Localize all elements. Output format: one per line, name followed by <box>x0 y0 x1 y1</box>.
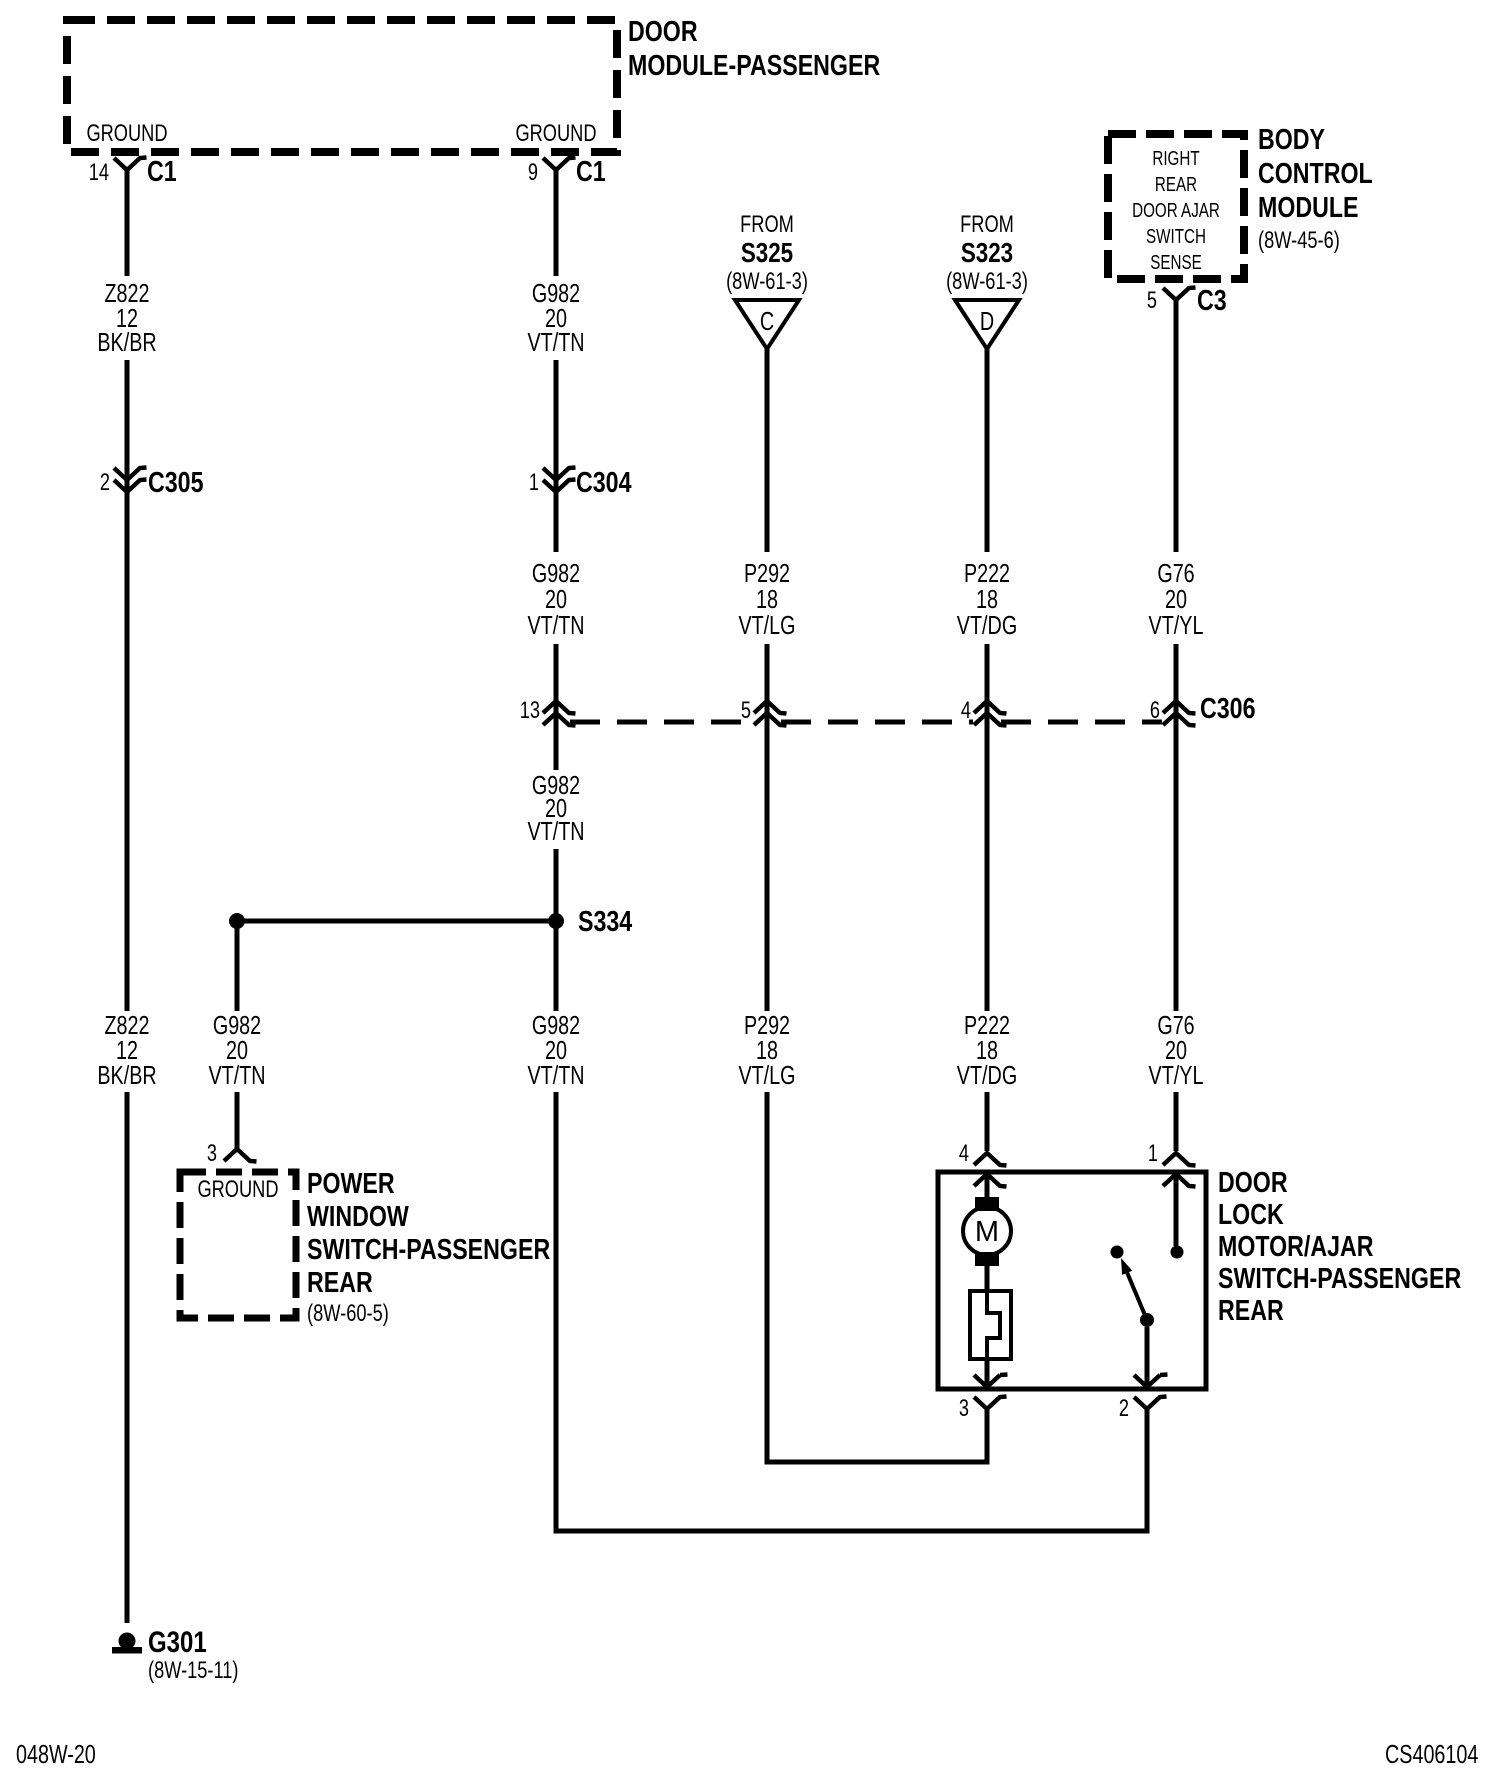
svg-text:14: 14 <box>89 159 109 186</box>
power window switch box <box>180 1172 296 1318</box>
svg-text:CS406104: CS406104 <box>1385 1739 1478 1769</box>
svg-text:VT/DG: VT/DG <box>957 1060 1017 1090</box>
wire Z822 long segment <box>125 494 130 1011</box>
wire label P292 18 VT/LG row B <box>738 558 795 640</box>
svg-text:6: 6 <box>1150 697 1160 724</box>
wire label G982 20 VT/TN row C <box>527 770 584 846</box>
wire P222 to door lock pin 4 <box>985 1092 990 1151</box>
switch pivot dot <box>1140 1313 1154 1327</box>
connector C1 pin 14 symbol <box>114 158 147 171</box>
wire G982 segment c <box>554 494 559 552</box>
connector chevron door lock pin 4 outside <box>974 1153 1007 1166</box>
wire P292 segment <box>765 644 770 725</box>
connector chevron door lock pin 3 inside <box>974 1375 1008 1388</box>
switch contact dot right <box>1171 1246 1184 1259</box>
svg-text:MODULE-PASSENGER: MODULE-PASSENGER <box>628 50 880 82</box>
connector C306 pin 4 symbol <box>974 701 1007 726</box>
connector chevron door lock pin 1 outside <box>1163 1153 1196 1166</box>
svg-text:(8W-45-6): (8W-45-6) <box>1258 227 1340 254</box>
svg-text:VT/DG: VT/DG <box>957 610 1017 640</box>
wire label P222 18 VT/DG row D <box>957 1010 1017 1090</box>
wire pin 4 to motor <box>985 1174 990 1199</box>
off-page connector C triangle <box>735 300 799 349</box>
svg-text:VT/TN: VT/TN <box>527 816 584 846</box>
svg-text:2: 2 <box>1119 1395 1129 1422</box>
connector fork door lock pin 2 <box>1134 1397 1167 1410</box>
ground G301 symbol <box>112 1633 142 1654</box>
door ajar switch contact <box>987 1291 1000 1359</box>
svg-text:REAR: REAR <box>1218 1295 1284 1327</box>
wire P222 from connector D <box>985 349 990 552</box>
svg-text:DOOR AJAR: DOOR AJAR <box>1132 200 1220 222</box>
wire label P222 18 VT/DG row B <box>957 558 1017 640</box>
wire ajar switch to pin 3 <box>985 1359 990 1387</box>
connector C3 pin 5 symbol <box>1163 288 1196 301</box>
connector fork power window pin 3 <box>224 1149 257 1162</box>
connector C305 symbol <box>114 468 147 493</box>
wire label G76 20 VT/YL row B <box>1149 558 1204 640</box>
svg-text:BK/BR: BK/BR <box>97 1060 156 1090</box>
wire P222 segment b <box>985 725 990 1011</box>
svg-text:VT/LG: VT/LG <box>738 610 795 640</box>
svg-text:C304: C304 <box>576 467 632 499</box>
svg-text:C305: C305 <box>148 467 204 499</box>
body control module title <box>1258 124 1373 224</box>
svg-text:FROM: FROM <box>740 211 794 238</box>
svg-text:DOOR: DOOR <box>1218 1167 1288 1199</box>
svg-text:G301: G301 <box>148 1626 207 1659</box>
wire G982 branch to power window switch <box>235 1092 240 1149</box>
wire G76 from C3 <box>1174 300 1179 552</box>
body control module box <box>1108 134 1244 279</box>
svg-text:C1: C1 <box>147 156 177 188</box>
wire G982 to door lock pin 2 <box>556 1092 1147 1531</box>
wire G982 branch from S334 <box>235 921 240 1011</box>
svg-text:5: 5 <box>741 697 751 724</box>
connector C304 symbol <box>543 468 576 493</box>
connector chevron door lock pin 4 inside <box>974 1174 1007 1187</box>
connector C1 pin 9 symbol <box>543 158 576 171</box>
svg-text:1: 1 <box>529 469 539 496</box>
wire G76 segment <box>1174 644 1179 725</box>
splice S334 horizontal wire <box>237 919 556 924</box>
wire switch pivot to pin 2 <box>1145 1327 1150 1387</box>
right rear door ajar switch sense label <box>1132 148 1220 274</box>
wire pin 1 to switch contact <box>1174 1174 1179 1246</box>
svg-text:MOTOR/AJAR: MOTOR/AJAR <box>1218 1231 1374 1263</box>
switch contact dot left <box>1111 1246 1124 1259</box>
wire label P292 18 VT/LG row D <box>738 1010 795 1090</box>
wire G982 segment e <box>554 725 559 770</box>
svg-text:SENSE: SENSE <box>1150 252 1202 274</box>
svg-text:S334: S334 <box>578 906 632 938</box>
connector chevron door lock pin 2 inside <box>1134 1375 1168 1388</box>
svg-text:C306: C306 <box>1200 693 1256 725</box>
wire G76 segment b <box>1174 725 1179 1011</box>
svg-text:VT/LG: VT/LG <box>738 1060 795 1090</box>
wire P292 segment b <box>765 725 770 1011</box>
svg-text:13: 13 <box>520 697 540 724</box>
svg-text:D: D <box>980 306 994 336</box>
svg-text:(8W-61-3): (8W-61-3) <box>946 268 1028 295</box>
connector C306 pin 13 symbol <box>543 701 576 726</box>
svg-text:DOOR: DOOR <box>628 16 698 48</box>
svg-text:2: 2 <box>100 469 110 496</box>
svg-text:BK/BR: BK/BR <box>97 327 156 357</box>
connector C306 pin 6 symbol <box>1163 701 1196 726</box>
wire G982 segment b <box>554 360 559 494</box>
wire label Z822 12 BK/BR upper <box>97 278 156 357</box>
svg-text:(8W-61-3): (8W-61-3) <box>726 268 808 295</box>
motor brush bottom <box>975 1252 999 1266</box>
door module-passenger title <box>628 16 880 82</box>
svg-text:GROUND: GROUND <box>515 120 596 147</box>
wire P292 to door lock pin 3 <box>767 1092 987 1462</box>
svg-text:CONTROL: CONTROL <box>1258 158 1373 190</box>
svg-text:S325: S325 <box>741 237 793 268</box>
dashed connector line C306 segment 2 <box>781 720 973 725</box>
off-page connector D triangle <box>955 300 1019 349</box>
svg-text:REAR: REAR <box>307 1267 373 1299</box>
svg-text:BODY: BODY <box>1258 124 1325 156</box>
splice S334 dot right <box>548 913 564 929</box>
svg-text:(8W-15-11): (8W-15-11) <box>148 1657 239 1684</box>
switch arm with arrow <box>1121 1258 1147 1320</box>
svg-text:S323: S323 <box>961 237 1013 268</box>
wire label G982 20 VT/TN branch <box>208 1010 265 1090</box>
svg-text:C3: C3 <box>1197 285 1227 317</box>
wire Z822 segment <box>125 360 130 494</box>
svg-text:GROUND: GROUND <box>197 1176 278 1203</box>
wire Z822 from C1 pin 14 <box>125 170 130 276</box>
wire label G982 20 VT/TN row B <box>527 558 584 640</box>
wire P222 segment <box>985 644 990 725</box>
wire label Z822 12 BK/BR lower <box>97 1010 156 1090</box>
svg-text:GROUND: GROUND <box>86 120 167 147</box>
svg-text:FROM: FROM <box>960 211 1014 238</box>
svg-text:RIGHT: RIGHT <box>1152 148 1199 170</box>
door lock motor/ajar switch box <box>938 1172 1206 1389</box>
wire label G76 20 VT/YL row D <box>1149 1010 1204 1090</box>
wire P292 from connector C <box>765 349 770 552</box>
wire label G982 20 VT/TN row A <box>527 278 584 357</box>
svg-text:WINDOW: WINDOW <box>307 1201 409 1233</box>
svg-text:SWITCH-PASSENGER: SWITCH-PASSENGER <box>307 1234 550 1266</box>
wire motor to ajar switch <box>985 1266 990 1291</box>
wire label G982 20 VT/TN row D <box>527 1010 584 1090</box>
svg-text:4: 4 <box>959 1140 969 1167</box>
svg-text:VT/YL: VT/YL <box>1149 1060 1204 1090</box>
motor M1 body <box>963 1207 1011 1255</box>
wire G982 segment d <box>554 644 559 725</box>
svg-text:C: C <box>760 306 774 336</box>
door lock switch title <box>1218 1167 1461 1327</box>
connector fork door lock pin 3 <box>974 1397 1007 1410</box>
dashed connector line C306 segment 3 <box>1001 720 1162 725</box>
power window switch title <box>307 1168 550 1299</box>
svg-text:4: 4 <box>961 697 971 724</box>
wire G982 from C1 pin 9 <box>554 170 559 276</box>
svg-text:VT/TN: VT/TN <box>527 327 584 357</box>
wire G982 below S334 <box>554 921 559 1011</box>
svg-text:SWITCH: SWITCH <box>1146 226 1206 248</box>
wire Z822 to ground <box>125 1092 130 1623</box>
svg-text:3: 3 <box>959 1395 969 1422</box>
svg-text:VT/TN: VT/TN <box>527 610 584 640</box>
svg-text:REAR: REAR <box>1155 174 1197 196</box>
svg-text:VT/YL: VT/YL <box>1149 610 1204 640</box>
svg-text:048W-20: 048W-20 <box>16 1739 96 1769</box>
connector C306 pin 5 symbol <box>754 701 787 726</box>
svg-text:MODULE: MODULE <box>1258 192 1359 224</box>
wire G982 segment f <box>554 849 559 921</box>
svg-text:SWITCH-PASSENGER: SWITCH-PASSENGER <box>1218 1263 1461 1295</box>
svg-text:POWER: POWER <box>307 1168 395 1200</box>
svg-text:C1: C1 <box>576 156 606 188</box>
svg-text:VT/TN: VT/TN <box>208 1060 265 1090</box>
svg-text:(8W-60-5): (8W-60-5) <box>307 1300 389 1327</box>
svg-text:5: 5 <box>1147 287 1157 314</box>
svg-text:1: 1 <box>1148 1140 1158 1167</box>
dashed connector line C306 segment 1 <box>570 720 754 725</box>
svg-text:9: 9 <box>528 159 538 186</box>
svg-text:LOCK: LOCK <box>1218 1199 1284 1231</box>
svg-text:VT/TN: VT/TN <box>527 1060 584 1090</box>
door ajar switch case <box>970 1291 1011 1359</box>
connector chevron door lock pin 1 inside <box>1163 1174 1196 1187</box>
svg-text:3: 3 <box>207 1140 217 1167</box>
splice S334 dot left <box>229 913 245 929</box>
svg-text:M: M <box>975 1216 999 1248</box>
motor brush top <box>975 1197 999 1211</box>
door module-passenger box <box>67 20 617 152</box>
wire G76 to door lock pin 1 <box>1174 1092 1179 1151</box>
